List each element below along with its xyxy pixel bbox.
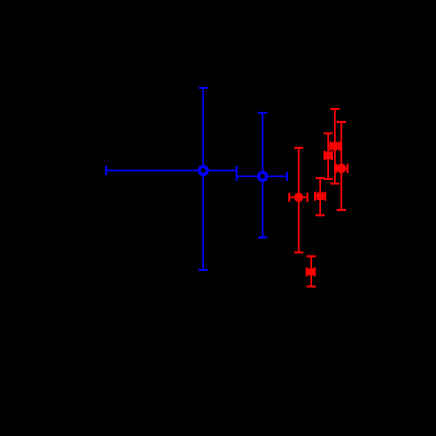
red point R6 x error bar — [307, 267, 315, 276]
red point R6 y error bar — [307, 256, 316, 286]
red filled-circle marker R5 — [337, 164, 347, 174]
red point R5 y error bar — [337, 122, 346, 210]
red point R2 x error bar — [315, 192, 325, 201]
red point R4 y error bar — [330, 109, 339, 184]
red filled-circle marker R1 — [294, 193, 303, 202]
red filled-square marker R2 — [316, 192, 324, 200]
blue point P1 y error bar — [199, 88, 208, 270]
blue open-circle marker P2 — [259, 172, 267, 180]
red filled-square marker R3 — [324, 152, 332, 160]
red point R4 x error bar — [330, 141, 339, 150]
blue point P1 x error bar — [106, 166, 237, 175]
red point R3 y error bar — [324, 133, 333, 179]
red point R2 y error bar — [316, 178, 325, 215]
blue point P2 y error bar — [258, 113, 267, 238]
red point R1 x error bar — [289, 193, 307, 202]
blue open-circle marker P1 — [199, 167, 207, 175]
red point R1 y error bar — [294, 148, 303, 253]
red point R3 x error bar — [325, 151, 333, 160]
red point R5 x error bar — [336, 164, 347, 173]
blue point P2 x error bar — [237, 172, 288, 181]
red filled-square marker R6 — [308, 268, 315, 275]
red filled-circle marker R4 — [330, 141, 339, 150]
